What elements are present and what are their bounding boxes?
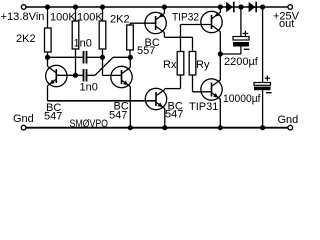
wire 2K2 left top lead [47, 7, 49, 28]
wire 100K left top lead [75, 7, 77, 21]
terminal +25V out [288, 5, 293, 10]
wire 2K2 right top bend to U3 base [129, 23, 131, 25]
wire bottom ground rail [26, 127, 288, 129]
capacitor C3 2200uf [233, 37, 249, 41]
wire Q1 base to C2 [76, 74, 83, 76]
node junction top rail / 2K2 left [45, 4, 50, 9]
transistor U3 BC557 [145, 12, 166, 33]
wire 100K right bottom lead [102, 49, 104, 57]
node Q2 emitter to ground rail [128, 125, 133, 130]
resistor Rx [177, 52, 184, 76]
transistor Q1 BC547 left [46, 65, 67, 86]
wire 100K right top lead [102, 7, 104, 21]
wire 2200uf top lead [240, 7, 242, 37]
wire emitter bus Q1/Q2 to Q5 base [48, 100, 157, 102]
transistor Q4 TIP32 [201, 11, 222, 32]
wire Q1 collector to C1 [48, 56, 83, 58]
resistor 2K2 right [127, 25, 134, 50]
capacitor C1 1n0 upper [83, 51, 85, 64]
wire C2 diagonal to Q2 collector net [95, 57, 113, 75]
terminal +13.8Vin [21, 5, 26, 10]
svg-text:2200µf: 2200µf [224, 56, 259, 68]
wire Q2 base horizontal [103, 74, 122, 76]
transistor Q5 BC547 right [145, 88, 166, 109]
svg-text:+13.8Vin: +13.8Vin [1, 11, 45, 23]
node junction 10000uf ground [260, 125, 265, 130]
node Q5 emitter to ground rail [162, 125, 167, 130]
wire Q2 base vertical [102, 57, 104, 75]
svg-text:1n0: 1n0 [80, 82, 98, 94]
node junction top rail / 100K right [100, 4, 105, 9]
node junction top rail / 100K left [73, 4, 78, 9]
wire 2K2 right bottom lead [129, 50, 131, 57]
transistor Q6 TIP31 [201, 79, 222, 100]
node Q2 base junction [100, 55, 105, 60]
wire Q1 base lead [56, 74, 75, 76]
resistor Ry [189, 52, 196, 76]
resistor 100K right [99, 21, 106, 49]
wire Rx top to TIP32 base [180, 25, 182, 52]
node TIP31 emitter to ground rail [218, 125, 223, 130]
wire 100K left bottom lead [75, 49, 77, 75]
svg-text:Rx: Rx [163, 59, 177, 71]
wire 10000uf top lead [262, 7, 264, 83]
capacitor C4 10000uf [254, 83, 271, 86]
diode D2 [249, 2, 256, 13]
node Q1 collector junction [45, 55, 50, 60]
svg-text:2K2: 2K2 [16, 33, 36, 45]
node pump junction [218, 51, 223, 56]
wire 2K2 left bottom lead [47, 52, 49, 57]
svg-text:SMØVPO: SMØVPO [70, 118, 109, 130]
node Q1 base junction [73, 73, 78, 78]
wire C2 right lead [87, 74, 95, 76]
svg-text:TIP32: TIP32 [172, 12, 199, 24]
wire U3 collector to Ry [164, 36, 192, 38]
svg-text:1n0: 1n0 [74, 38, 92, 50]
wire Rx bottom to Q5 collector [180, 75, 182, 89]
transistor Q2 BC547 middle [111, 66, 132, 87]
wire top +13.8V rail [26, 6, 288, 8]
wire Ry top lead [192, 37, 194, 51]
capacitor C2 1n0 lower [83, 69, 85, 82]
node junction D1/D2 2200uf [238, 4, 243, 9]
wire Q2 collector net [113, 56, 130, 58]
wire 10000uf bottom lead [262, 90, 264, 128]
wire C1 to Q2 base node [87, 56, 102, 58]
svg-text:547: 547 [44, 110, 62, 122]
svg-text:10000µf: 10000µf [223, 93, 261, 105]
resistor 100K left [72, 21, 79, 49]
svg-text:2K2: 2K2 [110, 14, 130, 26]
svg-text:Gnd: Gnd [13, 113, 34, 125]
svg-text:Gnd: Gnd [278, 114, 299, 126]
terminal Gnd right [288, 125, 293, 130]
svg-text:547: 547 [165, 109, 183, 121]
node junction D2 output [260, 4, 265, 9]
svg-text:547: 547 [109, 110, 127, 122]
svg-text:Ry: Ry [196, 59, 210, 71]
node Q2 collector junction [128, 55, 133, 60]
svg-text:100K: 100K [50, 11, 76, 23]
svg-text:100K: 100K [77, 11, 103, 23]
diode D1 [226, 2, 233, 13]
svg-text:TIP31: TIP31 [189, 101, 218, 113]
wire 2200uf bottom lead [240, 47, 242, 55]
wire Ry bottom to TIP31 base [192, 75, 194, 92]
resistor 2K2 left [45, 28, 52, 52]
node junction top rail / U3 emitter [162, 4, 167, 9]
svg-text:out: out [279, 18, 294, 30]
svg-text:557: 557 [137, 45, 155, 57]
terminal Gnd left [21, 125, 26, 130]
wire pump node to 2200uf [220, 53, 241, 55]
node junction top rail / TIP32 emitter [218, 4, 223, 9]
